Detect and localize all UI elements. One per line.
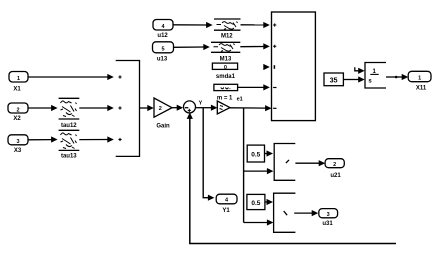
- inport u13: [153, 42, 174, 63]
- svg-text:1: 1: [17, 76, 20, 82]
- constant smda1: [212, 63, 237, 80]
- wire tau13 to Sum1: [79, 136, 114, 142]
- svg-text:Gain: Gain: [156, 123, 170, 129]
- svg-text:X3: X3: [14, 148, 22, 154]
- svg-text:X2: X2: [13, 116, 21, 122]
- svg-text:5: 5: [161, 47, 164, 53]
- wire 0.5b to divide2: [265, 199, 273, 205]
- wire Y branch to Y1: [203, 108, 214, 201]
- transfer function tau13: [59, 130, 80, 159]
- wire Sum1 to Gain: [140, 105, 154, 111]
- constant 35: [324, 73, 343, 86]
- svg-text:3: 3: [327, 212, 330, 218]
- wire X2 to tau12: [28, 105, 58, 111]
- wire u12 to M12: [173, 22, 213, 28]
- divide block 1: [274, 144, 295, 181]
- outport X11: [408, 71, 431, 91]
- svg-text:Y1: Y1: [222, 208, 230, 214]
- svg-text:Y: Y: [199, 101, 203, 107]
- wire M13 to big block: [240, 43, 269, 49]
- wire u13 to M13: [174, 44, 210, 50]
- svg-text:smda1: smda1: [216, 74, 236, 80]
- outport u21: [325, 159, 344, 179]
- svg-text:2: 2: [159, 106, 162, 112]
- divide block 2: [274, 193, 296, 232]
- svg-text:M13: M13: [220, 56, 232, 62]
- transfer function M12: [214, 19, 241, 39]
- svg-text:0.5: 0.5: [251, 152, 260, 159]
- wire e1 branch down: [243, 108, 245, 223]
- inport u12: [153, 20, 173, 40]
- svg-text:1: 1: [418, 75, 421, 81]
- sum block Sum1: [116, 61, 140, 157]
- transfer function tau12: [59, 98, 80, 129]
- svg-text:u13: u13: [157, 56, 168, 62]
- constant 0.5 b: [247, 194, 265, 209]
- wire integrator to X11: [386, 74, 408, 80]
- svg-text:35: 35: [330, 78, 338, 85]
- inport X1: [9, 72, 28, 93]
- wire m=1 to big block: [238, 84, 270, 90]
- wire Gain to Sum2: [172, 105, 183, 111]
- svg-text:tau13: tau13: [61, 154, 77, 160]
- constant 0.5 a: [247, 145, 264, 162]
- wire 0.5a to divide1: [265, 150, 274, 156]
- gain block Gain: [154, 98, 172, 129]
- svg-text:u12: u12: [157, 33, 168, 39]
- outport Y1: [216, 194, 237, 214]
- wire e1 to divide2 lower: [244, 219, 274, 225]
- wire 35 to integrator: [343, 76, 364, 82]
- wire Sum2 to Gain m1: [196, 105, 218, 111]
- svg-text:M12: M12: [221, 33, 233, 39]
- subsystem big block: [272, 12, 316, 121]
- svg-text:2: 2: [333, 162, 336, 168]
- svg-text:u31: u31: [322, 221, 333, 227]
- constant m=1: [214, 84, 238, 101]
- wire upper input to integrator: [355, 67, 365, 74]
- svg-text:u21: u21: [330, 173, 341, 179]
- svg-text:0.5: 0.5: [251, 200, 260, 207]
- svg-text:X1: X1: [13, 87, 21, 93]
- svg-text:X11: X11: [416, 85, 427, 91]
- svg-text:e1: e1: [237, 96, 243, 102]
- transfer function M13: [211, 42, 240, 62]
- sum block Sum2: [184, 101, 196, 113]
- outport u31: [319, 209, 338, 228]
- wire M12 to big block: [241, 22, 270, 28]
- wire tau12 to Sum1: [79, 105, 114, 111]
- inport X2: [8, 103, 28, 122]
- wire X3 to tau13: [28, 136, 58, 142]
- wire e1 to big block: [230, 105, 272, 111]
- integrator 1/s: [365, 63, 386, 89]
- gain block m1 triangle: [217, 101, 230, 114]
- svg-text:m = 1: m = 1: [217, 96, 233, 102]
- arrowhead smda1 to big block: [263, 64, 270, 70]
- inport X3: [8, 135, 28, 154]
- wire feedback bottom to Sum2: [187, 112, 396, 243]
- wire e1 to divide1 lower: [244, 168, 274, 174]
- svg-text:2: 2: [16, 107, 19, 113]
- wire X1 to Sum1: [28, 74, 114, 80]
- wire divide1 to u21: [295, 160, 325, 166]
- svg-text:0: 0: [224, 65, 227, 71]
- svg-text:3: 3: [16, 139, 19, 145]
- wire divide2 to u31: [294, 210, 318, 216]
- svg-text:tau12: tau12: [61, 123, 77, 129]
